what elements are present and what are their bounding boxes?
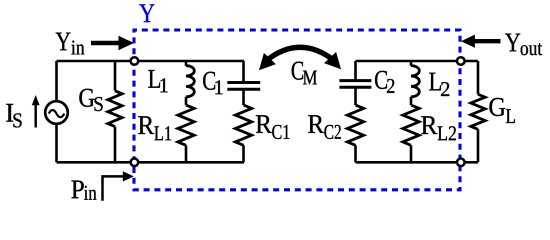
label C1 — [203, 72, 215, 90]
Pin arrow — [103, 176, 124, 200]
label IS — [6, 104, 13, 122]
node input top — [131, 57, 139, 65]
Yin arrow — [91, 41, 120, 46]
label Yout — [505, 34, 520, 52]
label C2 — [375, 71, 387, 89]
current source IS circle — [45, 101, 68, 124]
capacitor C1 — [242, 61, 245, 105]
label GS — [79, 89, 94, 107]
resistor GL — [477, 61, 480, 162]
wire top-right rail — [356, 60, 479, 63]
wire top-left rail — [57, 60, 245, 63]
node output bottom — [457, 159, 465, 167]
node label Y — [139, 4, 154, 22]
label CM — [292, 62, 303, 80]
label L1 — [148, 70, 160, 88]
label Pin — [71, 181, 83, 199]
wire left branch verticals — [55, 61, 58, 162]
blue dashed admittance box Y — [134, 30, 460, 190]
resistor RL2 — [403, 105, 419, 145]
resistor RC1 — [235, 105, 251, 145]
resistor GS — [114, 61, 117, 162]
IS direction arrow — [34, 105, 37, 128]
inductor L1 — [185, 61, 188, 105]
resistor RC2 — [347, 105, 363, 145]
capacitor C2 — [354, 61, 357, 105]
label L2 — [429, 73, 441, 91]
label Yin — [56, 33, 71, 51]
Yout arrow — [474, 39, 501, 43]
label RL1 — [138, 116, 154, 134]
node output top — [457, 57, 465, 65]
node input bottom — [131, 159, 139, 167]
wire bottom-left rail — [57, 161, 245, 164]
label GL — [489, 98, 505, 116]
label RL2 — [421, 116, 437, 134]
label RC2 — [308, 115, 324, 133]
label RC1 — [256, 115, 272, 133]
inductor L2 — [410, 61, 413, 105]
wire bottom-right rail — [356, 161, 479, 164]
current source sine symbol — [49, 110, 65, 117]
coupling arrow CM — [267, 47, 335, 60]
resistor RL1 — [178, 105, 194, 145]
